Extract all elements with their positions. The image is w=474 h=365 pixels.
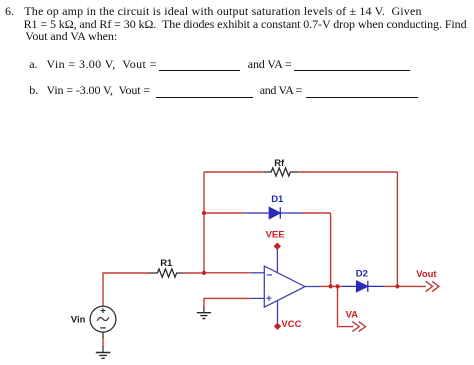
item a blank 1 [159,70,240,71]
svg-text:Vout: Vout [416,269,437,280]
svg-text:D1: D1 [271,194,284,205]
wire D1 branch down [330,213,332,286]
item b blank 1 [156,97,253,98]
arrow Vout [426,281,439,291]
ground (below Vin) [96,353,111,359]
item b mid text [260,84,302,97]
wire feedback right vertical [396,172,398,286]
paragraph line 1 [24,5,421,18]
wire D1 left segment [204,212,244,214]
wire VA branch [338,286,354,326]
ground (noninverting input) [197,306,211,319]
junction node (Vout / feedback) [395,284,399,288]
junction node (R1 / feedback / op-amp) [202,271,206,275]
wire Rf left segment [204,171,263,173]
resistor R1 [150,269,183,277]
item a blank 2 [294,70,410,71]
wire node to inverting pin [204,272,251,274]
svg-text:Rf: Rf [274,158,285,169]
op-amp U1 [251,249,321,324]
svg-text:Vin: Vin [71,315,86,326]
svg-text:VCC: VCC [281,319,301,330]
item b blank 2 [306,97,419,98]
arrow VA [352,322,365,332]
wire R1 to inverting node [183,272,204,274]
wire D2 to Vout [384,285,426,287]
wire D1 right segment [302,212,331,214]
wire Vin to R1 [103,273,150,306]
item a mid text [248,58,292,71]
wire Rf right segment [298,171,397,173]
power terminal VCC [275,323,281,329]
item a text [47,58,157,71]
wire Vin to ground [102,337,104,347]
svg-text:D2: D2 [356,268,368,279]
paragraph line 2 [24,18,467,31]
wire feedback left vertical [203,172,205,273]
paragraph line 3 [25,30,117,43]
svg-text:R1: R1 [160,258,173,269]
resistor Rf [263,168,299,176]
problem number [5,5,14,18]
junction node (output / VA branch) [335,284,339,288]
power terminal VEE [274,243,280,249]
diode D2 [342,281,384,292]
svg-text:VEE: VEE [266,229,285,240]
source Vin [90,306,116,352]
item b label [29,84,38,97]
wire noninverting input [204,298,251,306]
item a label [29,58,37,71]
wire opamp output to D2 [320,285,342,287]
junction node (output / D1 branch) [329,284,333,288]
svg-text:VA: VA [346,310,359,321]
junction node (feedback / D1) [202,211,206,215]
diode D1 [244,207,302,218]
item b text [47,84,151,97]
